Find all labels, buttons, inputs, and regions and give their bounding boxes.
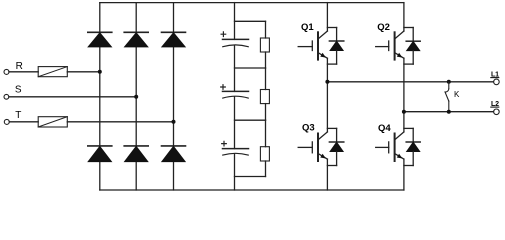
terminal T (4, 119, 9, 124)
wire S line (9, 96, 136, 98)
wire rectifier leg 3 (173, 3, 175, 190)
svg-text:Q2: Q2 (377, 22, 390, 33)
capacitor C3 (222, 141, 249, 155)
wire R terminal to fuse (9, 71, 38, 73)
freewheel diode of Q1 (329, 28, 343, 65)
junction node S-leg2 (134, 95, 138, 99)
svg-text:K: K (454, 90, 460, 99)
wire rectifier leg 2 (135, 3, 137, 190)
svg-text:Q1: Q1 (301, 22, 314, 33)
terminal L1 (494, 79, 500, 85)
fuse FU1 on R line (38, 67, 67, 77)
fuse FU2 on T line (38, 117, 67, 127)
junction node L1 midpoint (325, 80, 329, 84)
IGBT Q1 (298, 3, 336, 82)
wire top DC bus rail (100, 2, 404, 4)
terminal L2 (494, 109, 500, 115)
IGBT Q2 (376, 3, 414, 112)
wire bottom DC bus rail (100, 189, 404, 191)
IGBT Q3 (298, 82, 336, 190)
terminal S (4, 94, 9, 99)
resistor R1 (260, 21, 269, 68)
wire output L2 (404, 111, 494, 113)
svg-text:T: T (15, 110, 21, 121)
wire branch 1 cap string to resistor branch (235, 20, 266, 22)
terminal R (4, 69, 9, 74)
freewheel diode of Q3 (329, 128, 343, 165)
junction node L2 midpoint (402, 110, 406, 114)
wire rectifier leg 1 (99, 3, 101, 190)
junction node R-leg1 (98, 70, 102, 74)
capacitor C1 (221, 32, 248, 47)
label L2 (491, 101, 499, 108)
wire T terminal to fuse (9, 121, 38, 123)
wire DC bus capacitor string (234, 3, 236, 190)
diode D3 (162, 32, 186, 47)
svg-text:S: S (15, 85, 22, 96)
diode D2 (124, 32, 148, 47)
diode D6 (162, 146, 186, 162)
freewheel diode of Q4 (406, 128, 420, 165)
junction node T-leg3 (172, 120, 176, 124)
wire branch 3 (235, 119, 266, 121)
diode D1 (88, 32, 112, 47)
svg-text:R: R (16, 61, 23, 72)
freewheel diode of Q2 (406, 28, 420, 65)
diode D5 (124, 146, 148, 162)
label L1 (491, 71, 499, 78)
wire bottom connector of resistor branch (235, 161, 266, 177)
diode D4 (88, 146, 112, 162)
wire output L1 (327, 81, 493, 83)
resistor R3 (260, 120, 269, 161)
svg-text:Q3: Q3 (302, 123, 315, 134)
wire fuse to leg 3 (67, 121, 173, 123)
resistor R2 (260, 68, 269, 120)
wire branch 2 (235, 67, 266, 69)
capacitor C2 (221, 85, 249, 98)
svg-text:Q4: Q4 (378, 123, 391, 134)
IGBT Q4 (376, 112, 414, 190)
switch K (445, 80, 451, 114)
wire fuse to leg 1 (67, 71, 100, 73)
